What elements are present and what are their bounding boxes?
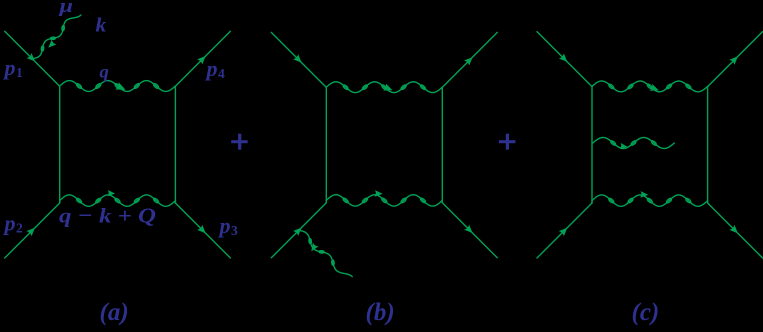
svg-text:μ: μ — [58, 0, 73, 17]
fermion propagator left side (c) — [591, 87, 593, 203]
photon propagator top (c) — [592, 81, 708, 92]
momentum arrow on bottom photon (b) — [375, 190, 383, 197]
radiated photon attached to lower-left leg (b) — [299, 230, 352, 276]
outgoing fermion leg upper-right (c) — [708, 32, 763, 87]
plus sign between (a) and (b) — [231, 134, 248, 150]
momentum arrow k on radiated photon (a) — [48, 40, 56, 48]
incoming fermion leg upper-left (c) — [537, 32, 592, 87]
outgoing fermion leg p4 (a) — [175, 31, 230, 86]
outgoing fermion leg lower-right (c) — [708, 203, 763, 258]
momentum arrow q on top photon (a) — [115, 82, 125, 90]
outgoing fermion leg upper-right (b) — [442, 32, 497, 87]
incoming fermion leg upper-left (b) — [271, 32, 326, 87]
photon propagator bottom (c) — [592, 195, 708, 206]
diagram (a) — [5, 15, 231, 258]
radiated photon k attached to p1 leg (a) — [32, 15, 81, 59]
momentum arrow on bottom photon (a) — [108, 190, 116, 196]
svg-text:(c): (c) — [632, 299, 660, 326]
fermion propagator left side (b) — [325, 87, 327, 202]
radiated photon from left fermion propagator (c) — [593, 138, 675, 149]
svg-text:(a): (a) — [100, 299, 129, 326]
photon propagator top (b) — [326, 82, 442, 93]
outgoing fermion leg p3 (a) — [175, 203, 230, 258]
incoming fermion leg p2 (a) — [5, 203, 60, 258]
fermion propagator left side (a) — [59, 86, 61, 203]
outgoing fermion leg lower-right (b) — [442, 203, 497, 258]
diagram (c) — [537, 32, 763, 258]
fermion propagator right side (c) — [707, 87, 709, 203]
momentum arrow on radiated photon (b) — [311, 243, 318, 252]
photon propagator bottom (b) — [326, 195, 442, 206]
fermion propagator right side (b) — [441, 87, 443, 202]
incoming fermion leg p1 (a) — [5, 31, 60, 86]
svg-text:(b): (b) — [366, 299, 395, 326]
plus sign between (b) and (c) — [499, 134, 516, 150]
diagram (b) — [271, 32, 497, 276]
momentum arrow on bottom photon (c) — [640, 191, 648, 198]
momentum arrow on top photon (c) — [650, 84, 659, 91]
incoming fermion leg lower-left (c) — [537, 203, 592, 258]
incoming fermion leg lower-left (b) — [271, 203, 326, 258]
photon propagator bottom (a) — [60, 195, 176, 206]
svg-text:k: k — [96, 15, 107, 37]
momentum arrow on middle photon (c) — [620, 143, 627, 149]
momentum arrow on top photon (b) — [383, 84, 392, 91]
svg-text:q: q — [100, 62, 109, 82]
fermion propagator right side (a) — [174, 86, 176, 203]
svg-text:q − k + Q: q − k + Q — [59, 203, 156, 227]
photon propagator top (a) — [60, 81, 176, 92]
